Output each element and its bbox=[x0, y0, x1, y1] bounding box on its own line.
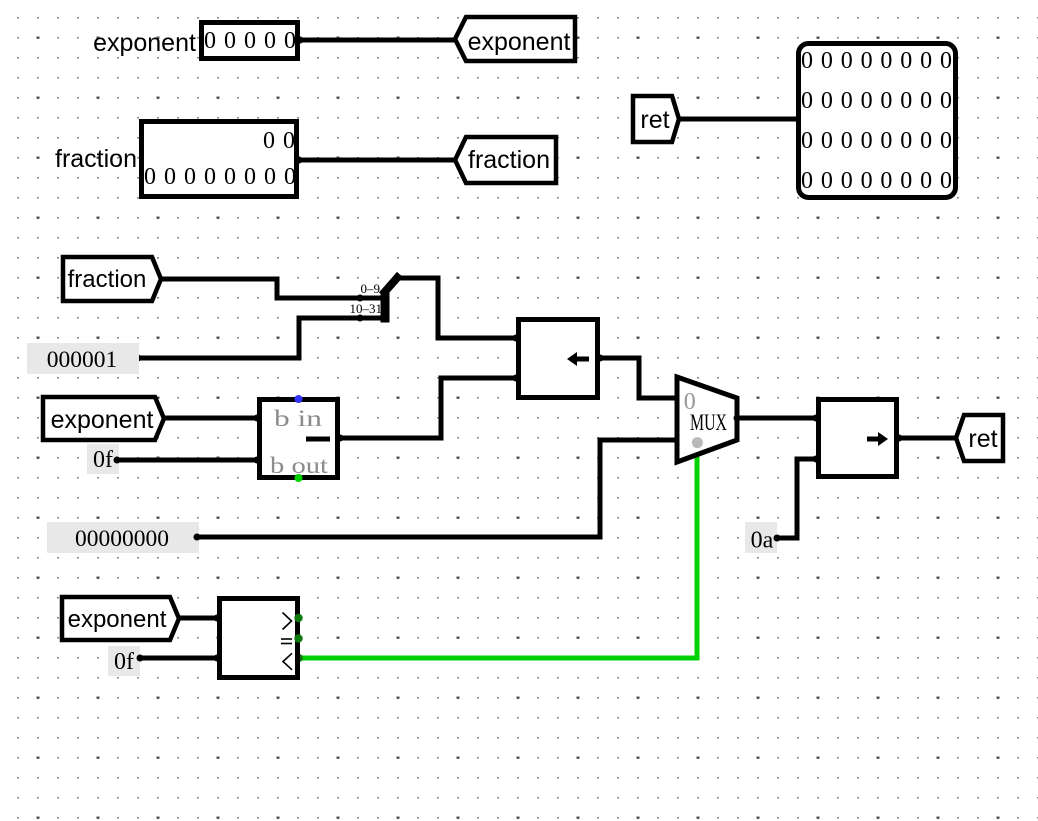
shifter U3 (shift right) bbox=[819, 400, 903, 477]
input pin exponent (5-bit) bbox=[202, 23, 298, 59]
svg-text:0–9: 0–9 bbox=[361, 281, 381, 296]
svg-text:MUX: MUX bbox=[690, 410, 727, 435]
svg-text:0: 0 bbox=[841, 48, 853, 74]
comparator U4 bbox=[220, 599, 303, 678]
svg-text:0: 0 bbox=[821, 168, 833, 194]
tunnel fraction (source, mid-left) bbox=[63, 257, 161, 301]
svg-text:0: 0 bbox=[244, 28, 256, 54]
tunnel exponent (source, mid-left) bbox=[43, 397, 164, 440]
svg-text:0: 0 bbox=[244, 164, 256, 190]
svg-text:0: 0 bbox=[861, 128, 873, 154]
wire constant 0f to subtractor B bbox=[114, 457, 261, 464]
svg-text:000001: 000001 bbox=[47, 347, 118, 373]
tunnel exponent (source, bottom) bbox=[62, 597, 179, 640]
tunnel ret (dest, right) bbox=[956, 415, 1003, 461]
svg-text:0: 0 bbox=[841, 168, 853, 194]
svg-text:0: 0 bbox=[861, 168, 873, 194]
svg-text:0: 0 bbox=[801, 48, 813, 74]
svg-text:fraction: fraction bbox=[55, 145, 137, 173]
wire shifter2 out to ret tunnel bbox=[899, 436, 956, 441]
svg-text:0: 0 bbox=[224, 28, 236, 54]
constant 0a bbox=[745, 522, 777, 554]
svg-text:00000000: 00000000 bbox=[75, 526, 169, 552]
svg-text:0: 0 bbox=[900, 48, 912, 74]
constant 00000000 bbox=[47, 522, 199, 553]
svg-text:ret: ret bbox=[968, 425, 997, 453]
svg-text:0: 0 bbox=[920, 88, 932, 114]
svg-text:0: 0 bbox=[801, 128, 813, 154]
wire pin exponent to tunnel bbox=[297, 37, 457, 44]
svg-text:0: 0 bbox=[940, 88, 952, 114]
wire exponent tunnel to subtractor A bbox=[164, 415, 261, 422]
constant 0f (bottom) bbox=[108, 646, 140, 676]
tunnel exponent (dest, top) bbox=[455, 17, 575, 61]
svg-text:0: 0 bbox=[283, 128, 295, 154]
svg-text:exponent: exponent bbox=[68, 606, 167, 633]
svg-text:ret: ret bbox=[640, 106, 669, 134]
svg-text:0: 0 bbox=[880, 128, 892, 154]
svg-text:0: 0 bbox=[801, 168, 813, 194]
svg-text:0: 0 bbox=[920, 48, 932, 74]
svg-text:0: 0 bbox=[263, 128, 275, 154]
svg-text:0f: 0f bbox=[93, 447, 113, 473]
svg-text:0: 0 bbox=[900, 88, 912, 114]
shifter U2 (shift left) bbox=[513, 320, 604, 398]
subtractor U1 bbox=[260, 395, 338, 482]
tunnel fraction (dest, top) bbox=[455, 137, 556, 183]
svg-text:10–31: 10–31 bbox=[350, 301, 383, 316]
svg-text:0: 0 bbox=[184, 164, 196, 190]
wire pin fraction to tunnel bbox=[296, 157, 457, 164]
wire constant 0f to comparator B bbox=[137, 655, 221, 662]
wire exponent tunnel to comparator A bbox=[179, 615, 221, 622]
svg-text:0: 0 bbox=[821, 128, 833, 154]
svg-text:0: 0 bbox=[164, 164, 176, 190]
svg-text:fraction: fraction bbox=[68, 266, 147, 293]
svg-text:0: 0 bbox=[284, 164, 296, 190]
svg-text:0: 0 bbox=[264, 164, 276, 190]
svg-text:0: 0 bbox=[880, 168, 892, 194]
svg-text:0: 0 bbox=[861, 48, 873, 74]
wire fraction tunnel to splitter bits 0-9 bbox=[161, 279, 360, 298]
svg-text:0: 0 bbox=[224, 164, 236, 190]
svg-text:0: 0 bbox=[284, 28, 296, 54]
svg-text:0: 0 bbox=[801, 88, 813, 114]
wire mux out to shifter2 data in bbox=[737, 415, 820, 422]
svg-text:0: 0 bbox=[841, 128, 853, 154]
output pin ret (32-bit) bbox=[799, 44, 956, 198]
multiplexer MUX bbox=[677, 377, 741, 462]
svg-text:0: 0 bbox=[821, 88, 833, 114]
svg-text:0: 0 bbox=[204, 28, 216, 54]
svg-text:0f: 0f bbox=[114, 649, 134, 675]
svg-text:0a: 0a bbox=[751, 528, 774, 554]
svg-text:0: 0 bbox=[920, 128, 932, 154]
svg-text:0: 0 bbox=[940, 48, 952, 74]
svg-text:exponent: exponent bbox=[468, 28, 571, 56]
svg-text:0: 0 bbox=[920, 168, 932, 194]
wire constant 0a to shifter2 shift amount bbox=[774, 456, 820, 542]
svg-text:0: 0 bbox=[841, 88, 853, 114]
svg-text:0: 0 bbox=[204, 164, 216, 190]
constant 0f bbox=[87, 444, 119, 474]
wire splitter bits 10-31 to constant 000001 bbox=[135, 318, 361, 362]
svg-text:0: 0 bbox=[940, 128, 952, 154]
svg-text:exponent: exponent bbox=[93, 29, 196, 57]
input pin fraction (10-bit) bbox=[142, 122, 297, 197]
wire subtractor out to shifter1 shift amount bbox=[337, 378, 517, 442]
svg-text:0: 0 bbox=[880, 88, 892, 114]
wire ret tunnel to output pin bbox=[679, 116, 800, 122]
svg-text:fraction: fraction bbox=[468, 146, 550, 174]
wire shifter1 out to mux in0 bbox=[600, 358, 681, 402]
constant 000001 bbox=[27, 343, 139, 374]
tunnel ret (source, top) bbox=[633, 96, 679, 142]
wire comparator less-than to mux select (green) bbox=[295, 450, 697, 662]
svg-text:0: 0 bbox=[900, 168, 912, 194]
splitter bbox=[357, 275, 401, 323]
svg-text:b in: b in bbox=[274, 406, 323, 431]
svg-text:0: 0 bbox=[900, 128, 912, 154]
svg-text:exponent: exponent bbox=[51, 406, 154, 434]
svg-text:0: 0 bbox=[940, 168, 952, 194]
svg-text:0: 0 bbox=[861, 88, 873, 114]
svg-text:0: 0 bbox=[821, 48, 833, 74]
wire splitter combined to shifter1 data in bbox=[400, 278, 516, 338]
svg-text:0: 0 bbox=[144, 164, 156, 190]
wire constant 00000000 to mux in1 bbox=[194, 437, 681, 541]
svg-text:0: 0 bbox=[880, 48, 892, 74]
svg-text:0: 0 bbox=[264, 28, 276, 54]
